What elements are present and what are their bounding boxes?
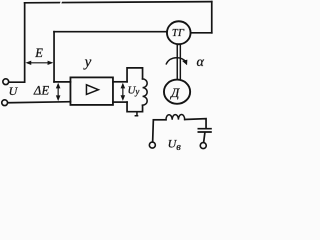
capacitor C1 plates [198,129,211,132]
svg-text:U: U [9,84,19,98]
terminal T1 (upper input) [3,79,9,85]
wire inner loop vertical [53,32,55,82]
svg-text:ТГ: ТГ [172,28,185,39]
wire corner to inductor [153,119,166,121]
field supply left terminal [149,142,155,148]
field supply right terminal [200,143,206,149]
terminal T2 (lower input) [2,100,8,106]
winding lower stub [135,112,137,116]
Uy measuring arrow (double headed) [121,83,126,101]
tachogenerator TG [167,21,191,44]
svg-text:Д: Д [169,85,180,100]
wire to TG right terminal [191,32,212,34]
dE measuring arrow (double headed) [56,83,61,101]
svg-text:Uв: Uв [168,137,182,154]
wire T1 to outer loop vertical [9,81,24,83]
rotation arc around shaft [166,58,185,64]
svg-text:α: α [197,55,205,70]
wire to amplifier top input [54,81,70,83]
wire amplifier output bottom [113,101,127,103]
svg-text:E: E [34,46,43,60]
rotation arc arrowhead [182,60,187,66]
svg-text:ΔE: ΔE [33,83,50,97]
amplifier triangle symbol [86,85,98,95]
amplifier U1 box [70,77,113,105]
shaft double line TG to D [177,45,180,79]
scan break in top wire [60,0,62,5]
control winding outline [127,68,143,112]
wire inductor to capacitor corner [185,119,206,128]
wire TG left to inner vertical [54,31,167,33]
wire amplifier output top [113,81,127,83]
E measuring arrow (double headed) [25,61,53,65]
motor D [164,80,190,104]
svg-text:Uу: Uу [127,85,139,97]
wire capacitor to right terminal [204,133,205,143]
wire outer loop left vertical [24,3,26,82]
control winding coil bumps [143,79,148,105]
inductor L1 (3 humps) [166,115,185,120]
wire bottom from T2 to amplifier [8,102,71,103]
wire outer loop top horizontal [25,2,212,3]
wire left terminal up to corner [152,120,155,142]
svg-text:у: у [83,54,92,70]
wire outer loop right vertical [211,2,213,33]
